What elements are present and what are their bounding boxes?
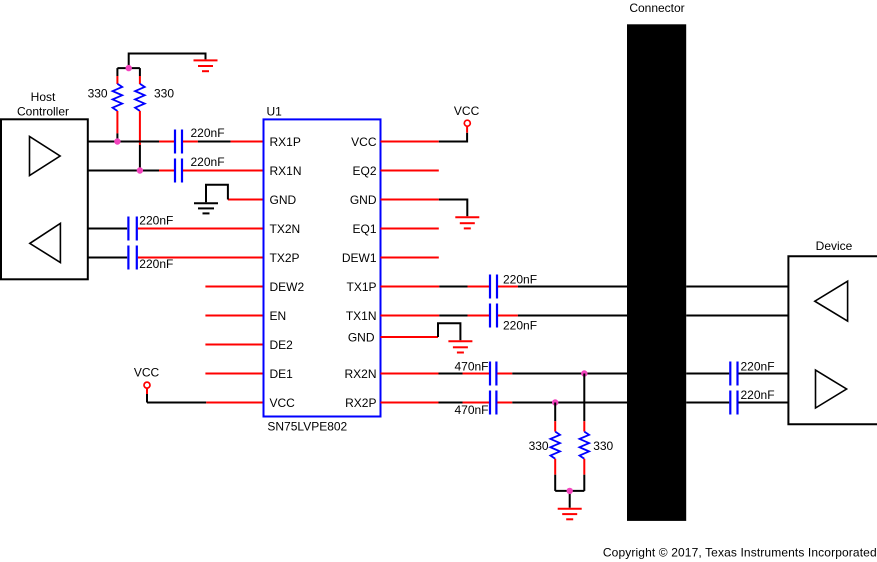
capacitor 470nF (RX2P): [490, 391, 496, 415]
Host Controller box: [1, 119, 88, 279]
pin stub EQ2: [381, 170, 439, 172]
svg-text:Controller: Controller: [17, 104, 69, 118]
wire TX1P row (cap to connector): [498, 286, 518, 288]
buffer triangle (device RX, left-pointing): [815, 281, 848, 321]
svg-text:330: 330: [593, 439, 613, 453]
capacitor 220nF (RX1P): [175, 130, 182, 154]
wire bottom resistors to ground: [555, 491, 584, 508]
resistor 330 (top right R): [135, 68, 145, 170]
capacitor 220nF (TX2P): [128, 246, 136, 270]
capacitor 220nF (RX1N): [175, 159, 182, 183]
resistor 330 (bottom left R): [550, 403, 560, 491]
svg-text:RX2N: RX2N: [344, 367, 376, 381]
wire TX1N (connector to device): [686, 315, 788, 317]
svg-text:GND: GND: [350, 193, 377, 207]
capacitor 220nF (TX2N): [128, 217, 136, 241]
node junction (RX1P / R): [114, 138, 120, 144]
Device box: [788, 256, 877, 424]
wire RX2N (cap to device): [739, 373, 789, 375]
wire RX2N (connector to cap): [686, 373, 729, 375]
pin stub EN: [205, 315, 263, 317]
svg-text:220nF: 220nF: [503, 272, 537, 286]
svg-text:SN75LVPE802: SN75LVPE802: [267, 420, 347, 434]
U1 right pin names: [342, 135, 377, 410]
wire TX1P (connector to device): [686, 286, 788, 288]
svg-text:220nF: 220nF: [741, 388, 775, 402]
wire RX2P row: [381, 402, 439, 404]
svg-text:220nF: 220nF: [191, 155, 225, 169]
ground (top left): [194, 60, 218, 71]
node junction (RX2P / R): [552, 399, 558, 405]
pin stub EQ1: [381, 228, 439, 230]
wire GND lower right staircase: [381, 336, 439, 338]
op-amp U1 box: [264, 119, 381, 416]
node junction (RX2N / R): [581, 370, 587, 376]
svg-text:470nF: 470nF: [454, 360, 488, 374]
U1 left pin names: [270, 135, 305, 410]
capacitor 220nF (device RX2N): [730, 362, 737, 386]
wire RX2P (connector to cap): [686, 402, 729, 404]
svg-text:VCC: VCC: [454, 104, 480, 118]
wire GND right pin: [381, 199, 439, 201]
svg-text:VCC: VCC: [351, 135, 377, 149]
resistor 330 (top left R): [113, 68, 123, 141]
svg-text:TX1P: TX1P: [346, 280, 376, 294]
VCC symbol (top right): [454, 104, 480, 133]
svg-text:VCC: VCC: [270, 396, 296, 410]
wire TX1N row: [381, 315, 440, 317]
wire GND left staircase: [228, 199, 264, 201]
wire TX2N row (cap to U1): [138, 228, 264, 230]
capacitor 220nF (TX1P): [490, 275, 497, 299]
svg-text:220nF: 220nF: [139, 257, 173, 271]
svg-text:VCC: VCC: [134, 366, 160, 380]
svg-text:330: 330: [88, 87, 108, 101]
wire TX2P row (cap to U1): [138, 257, 264, 259]
wire TX1P row: [381, 286, 440, 288]
svg-text:U1: U1: [267, 105, 283, 119]
ground (right of U1, lower): [448, 341, 472, 352]
svg-text:DEW1: DEW1: [342, 251, 377, 265]
wire top bus: resistor tops to ground: [117, 54, 205, 69]
svg-text:220nF: 220nF: [503, 318, 537, 332]
svg-text:EQ1: EQ1: [352, 222, 376, 236]
wire TX2P row (host to cap): [88, 257, 127, 259]
ground (right of U1, upper): [455, 217, 479, 228]
wire RX1P row (cap lead left): [159, 141, 174, 143]
svg-text:DE1: DE1: [270, 367, 294, 381]
svg-text:GND: GND: [270, 193, 297, 207]
pin stub DEW1: [381, 257, 439, 259]
wire VCC left pin: [147, 402, 206, 404]
wire RX2P row (cap to connector): [497, 402, 512, 404]
pin stub DEW2: [205, 286, 263, 288]
wire TX1N row (cap to connector): [498, 315, 518, 317]
Connector block: [627, 24, 686, 521]
svg-text:RX1N: RX1N: [270, 164, 302, 178]
ground (left GND pin, black): [194, 203, 218, 213]
wire RX2N row: [381, 373, 439, 375]
svg-text:330: 330: [154, 87, 174, 101]
VCC symbol (left): [134, 366, 160, 403]
wire RX1P row (host to cap): [88, 141, 159, 143]
svg-text:220nF: 220nF: [741, 360, 775, 374]
pin stub DE1: [205, 373, 263, 375]
svg-text:Host: Host: [31, 90, 56, 104]
buffer triangle (host TX, right-pointing): [30, 136, 61, 175]
svg-text:RX1P: RX1P: [270, 135, 301, 149]
wire RX1P row (cap to U1): [183, 141, 198, 143]
pin stub DE2: [205, 344, 263, 346]
svg-text:Connector: Connector: [629, 1, 684, 15]
node junction (RX1N / R): [137, 167, 143, 173]
buffer triangle (device TX, right-pointing): [816, 370, 847, 408]
buffer triangle (host RX, left-pointing): [30, 223, 61, 262]
svg-text:330: 330: [529, 439, 549, 453]
wire RX1N row (host to cap): [88, 170, 159, 172]
node junction (resistor tops): [126, 65, 132, 71]
svg-text:DEW2: DEW2: [270, 280, 305, 294]
svg-text:470nF: 470nF: [454, 403, 488, 417]
svg-text:RX2P: RX2P: [345, 396, 376, 410]
capacitor 220nF (TX1N): [490, 304, 497, 328]
svg-text:220nF: 220nF: [191, 126, 225, 140]
wire VCC right pin: [381, 141, 439, 143]
wire RX2N row (cap to connector): [497, 373, 512, 375]
svg-text:TX1N: TX1N: [346, 309, 377, 323]
wire TX2N row (host to cap): [88, 228, 127, 230]
svg-text:TX2P: TX2P: [270, 251, 300, 265]
svg-text:EN: EN: [270, 309, 287, 323]
wire RX2P (cap to device): [739, 402, 789, 404]
svg-text:GND: GND: [348, 330, 375, 344]
svg-text:Device: Device: [816, 239, 853, 253]
svg-text:220nF: 220nF: [139, 214, 173, 228]
svg-text:TX2N: TX2N: [270, 222, 301, 236]
wire RX1N row (cap to U1): [183, 170, 264, 172]
capacitor 470nF (RX2N): [490, 362, 496, 386]
resistor 330 (bottom right R): [580, 374, 590, 491]
capacitor 220nF (device RX2P): [730, 391, 737, 415]
node junction (resistor bottoms): [567, 488, 573, 494]
svg-text:Copyright © 2017, Texas Instru: Copyright © 2017, Texas Instruments Inco…: [603, 545, 877, 559]
svg-text:EQ2: EQ2: [352, 164, 376, 178]
svg-text:DE2: DE2: [270, 338, 294, 352]
ground (bottom): [558, 509, 582, 520]
